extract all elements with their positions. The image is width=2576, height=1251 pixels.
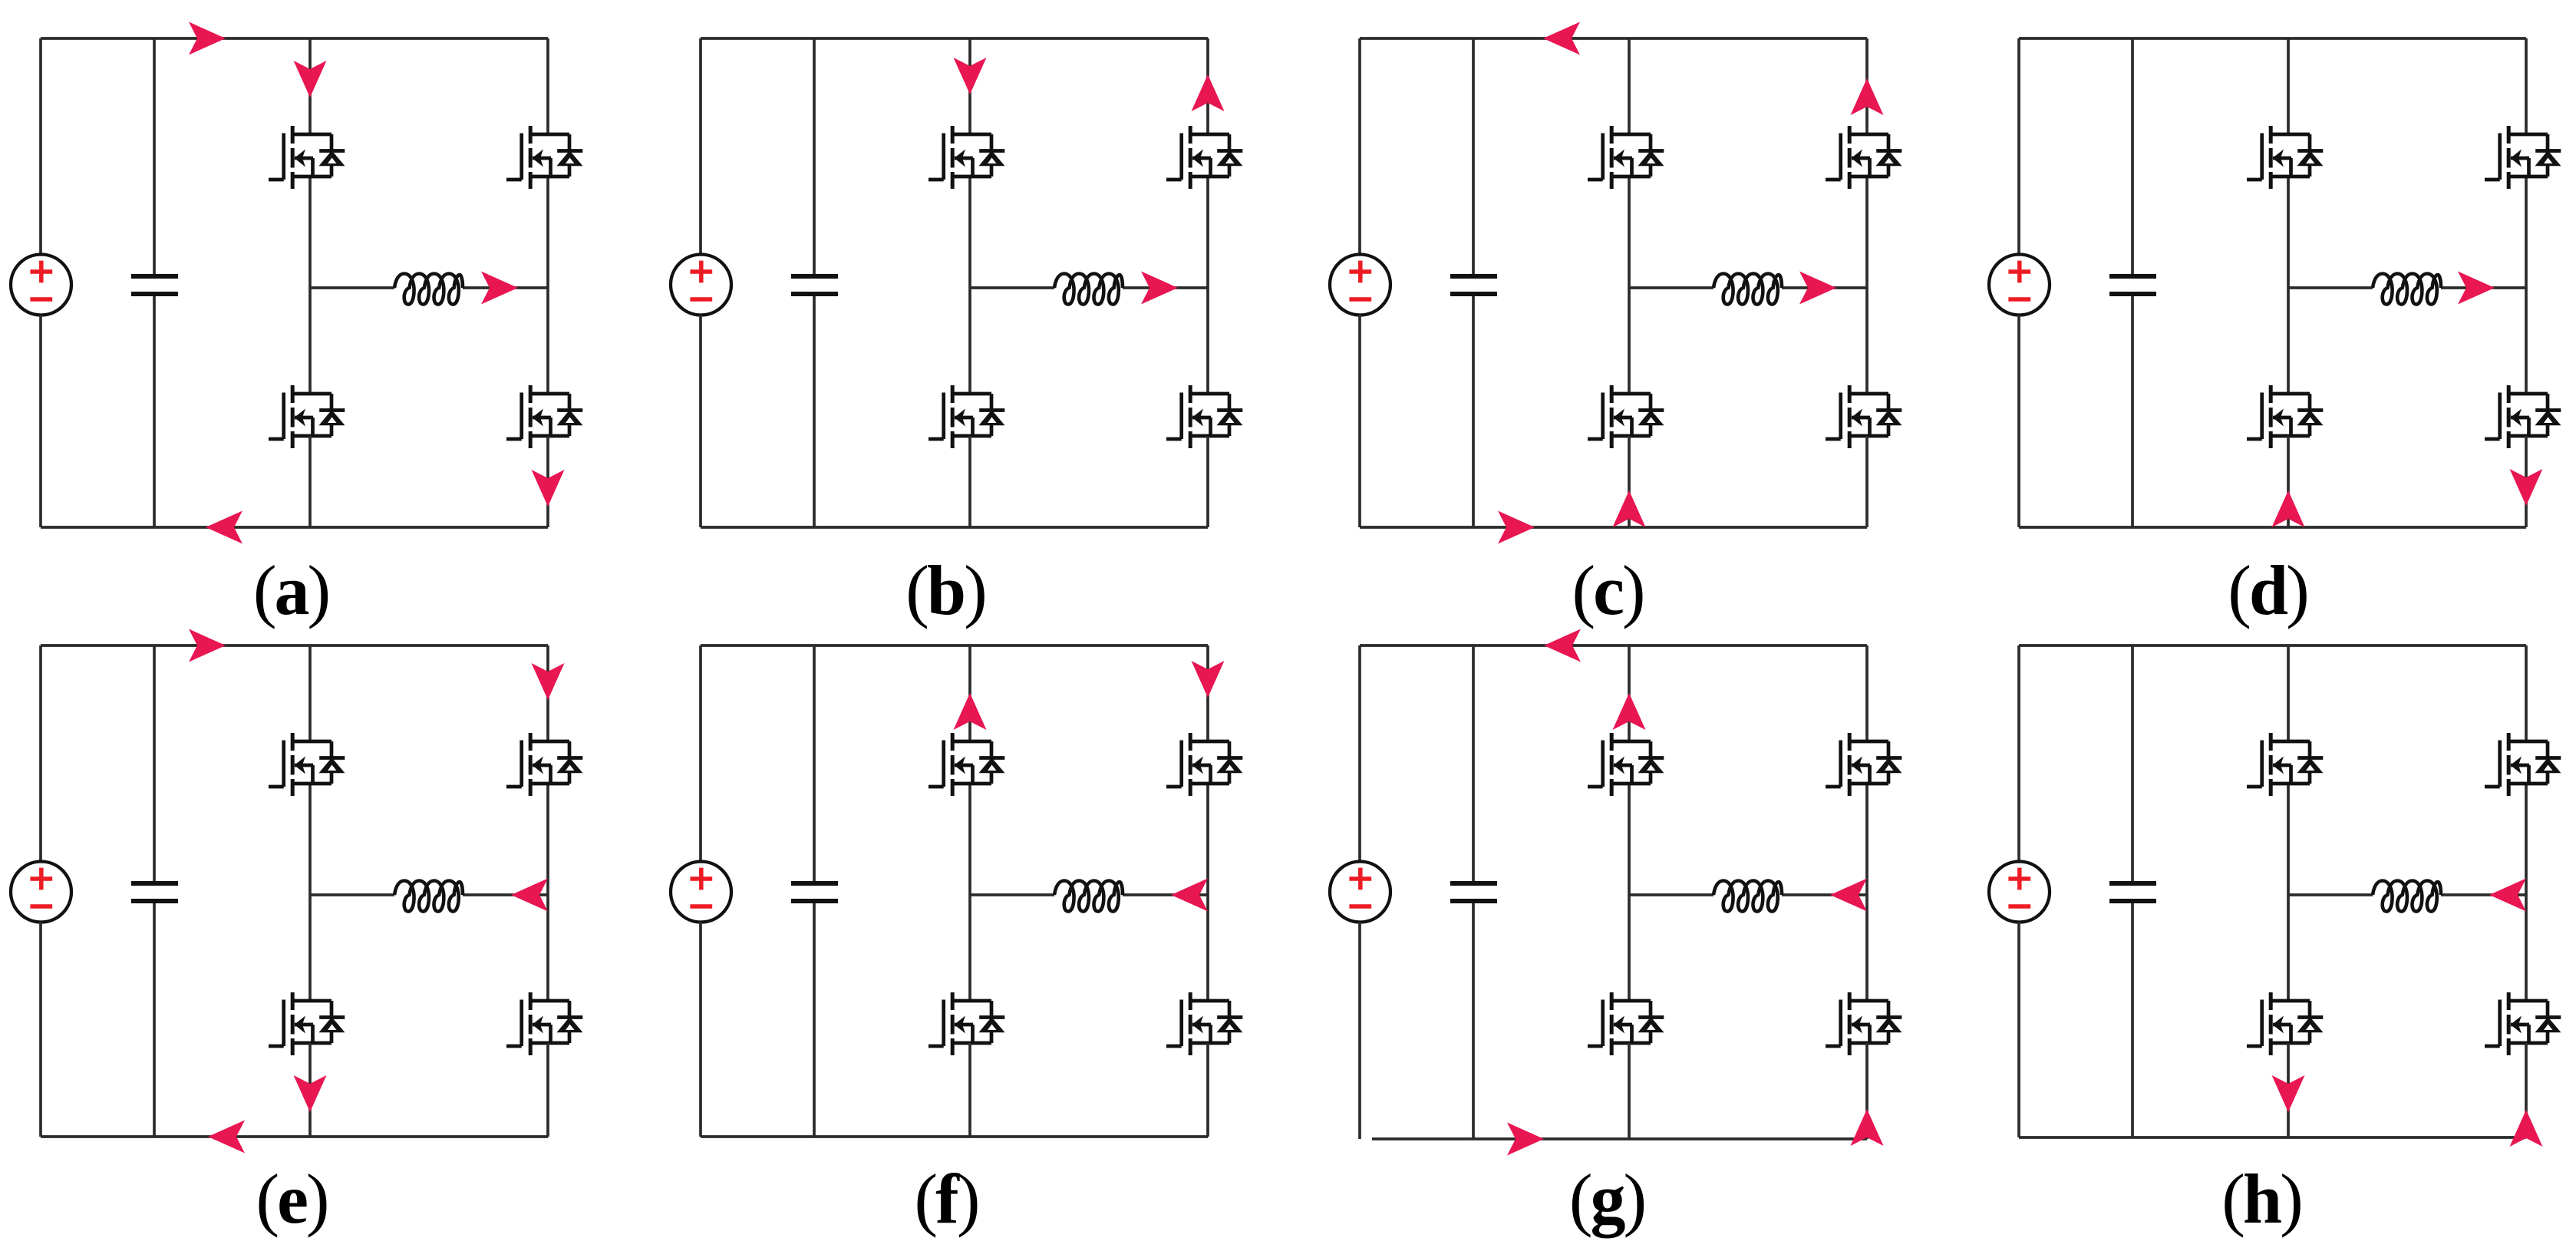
svg-text:(h): (h) <box>2221 1160 2301 1238</box>
svg-text:(b): (b) <box>905 551 985 629</box>
svg-text:(d): (d) <box>2228 551 2307 629</box>
svg-text:(a): (a) <box>253 551 328 629</box>
svg-text:(e): (e) <box>256 1160 327 1238</box>
svg-text:(g): (g) <box>1569 1160 1644 1238</box>
svg-text:(c): (c) <box>1572 551 1643 629</box>
svg-text:(f): (f) <box>915 1160 978 1238</box>
